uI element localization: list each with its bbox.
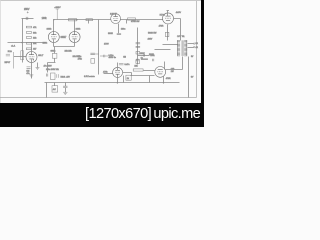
capacitor on branch xyxy=(143,54,145,57)
tube V5 plate bar xyxy=(115,69,120,71)
wire V6 cathode down xyxy=(163,77,165,83)
tube V2 splitter triode xyxy=(48,32,59,43)
svg-text:RCA: RCA xyxy=(8,50,13,53)
wire V3 plate up xyxy=(74,20,76,35)
svg-text:ch-A: ch-A xyxy=(11,44,16,47)
wire V7 plate to OPT xyxy=(174,19,181,41)
tube V6 cathode xyxy=(158,73,162,75)
node rail junction v6 xyxy=(163,82,164,83)
svg-text:47u: 47u xyxy=(26,73,29,75)
svg-text:100k: 100k xyxy=(76,28,82,30)
component box below rail xyxy=(52,86,58,92)
capacitor below rail xyxy=(63,86,67,87)
speaker terminal upper xyxy=(193,43,195,45)
svg-text:12BH7: 12BH7 xyxy=(110,13,117,15)
speaker terminal lower xyxy=(193,46,195,48)
ground symbol below rail xyxy=(63,92,67,94)
tube V1 plate bar xyxy=(29,54,34,56)
tube V4 grid dashes xyxy=(113,17,118,19)
transformer OPT secondary winding xyxy=(184,40,187,56)
tube V2 grid dashes xyxy=(51,36,57,38)
node junction on bus xyxy=(21,42,22,43)
svg-text:470R 5W: 470R 5W xyxy=(131,21,139,23)
resistor ladder row 5 xyxy=(26,48,31,50)
svg-text:22k: 22k xyxy=(33,37,37,39)
schematic scan xyxy=(0,0,204,127)
svg-text:6SL7: 6SL7 xyxy=(38,55,44,57)
component box bias xyxy=(51,73,56,80)
svg-text:470R: 470R xyxy=(159,25,164,27)
svg-text:100k: 100k xyxy=(42,18,48,20)
wire into transformer primary xyxy=(163,44,178,46)
capacitor chain mid xyxy=(136,46,141,47)
tube V3 cathode xyxy=(73,38,77,40)
svg-text:100u 100V 10k: 100u 100V 10k xyxy=(46,69,59,71)
wire V5 plate right xyxy=(123,73,132,76)
wire rail to output tube xyxy=(121,19,163,21)
resistor ladder row 1 xyxy=(26,26,31,28)
svg-text:390R: 390R xyxy=(108,33,113,35)
wire V1 cathode down xyxy=(31,60,33,79)
wire cathode bottom stub xyxy=(48,63,56,73)
resistor ladder row 3 xyxy=(26,37,31,39)
wire mid vertical to rail xyxy=(149,76,151,83)
svg-text:1k: 1k xyxy=(127,78,129,80)
node rail mid xyxy=(76,19,77,20)
tube V2 plate bar xyxy=(51,34,56,36)
wire resistor to V6 xyxy=(144,70,155,72)
svg-text:300V: 300V xyxy=(149,54,154,56)
svg-text:22k: 22k xyxy=(134,66,137,68)
svg-text:KT88: KT88 xyxy=(160,15,166,17)
wire feedback segment xyxy=(155,49,171,51)
tube V3 plate bar xyxy=(72,34,77,36)
wire ground rail xyxy=(45,82,180,84)
label row before V6 xyxy=(141,58,148,60)
wire V2 cathode down xyxy=(53,40,55,47)
capacitor above V5 xyxy=(119,64,124,65)
capacitor left of coupling wire xyxy=(90,53,98,55)
capacitor C_in marks xyxy=(26,17,28,20)
svg-text:100k: 100k xyxy=(47,28,53,30)
scan top edge xyxy=(0,0,201,2)
resistor chain mid xyxy=(136,52,140,55)
tube V4 cathode xyxy=(114,19,118,21)
svg-text:100u: 100u xyxy=(121,29,125,31)
tube V2 cathode xyxy=(52,38,56,40)
tube V5 lower driver xyxy=(113,67,123,77)
svg-text:47u 450V: 47u 450V xyxy=(44,66,53,68)
wire into V5 grid xyxy=(104,73,113,75)
svg-text:OPT 5k: OPT 5k xyxy=(177,36,185,38)
wire top-left horizontal xyxy=(22,18,34,20)
component box on rail center xyxy=(126,75,131,80)
tube V1 grid dashes xyxy=(29,56,35,58)
wire secondary out lower xyxy=(188,47,194,49)
resistor R_grid vertical xyxy=(21,51,24,60)
svg-text:10k: 10k xyxy=(33,43,37,45)
capacitor cathode bypass xyxy=(27,67,31,68)
svg-text:47k: 47k xyxy=(33,27,37,29)
wire drop to rail center xyxy=(123,76,125,83)
ground symbol input xyxy=(36,68,40,70)
svg-text:0V: 0V xyxy=(191,77,194,79)
svg-text:470k: 470k xyxy=(78,58,82,60)
wire lower coupling xyxy=(131,75,155,77)
wire junction drop xyxy=(126,20,128,24)
svg-text:1W: 1W xyxy=(171,71,174,73)
node rail left xyxy=(53,19,54,20)
wire horizontal upper-left bus xyxy=(8,42,47,44)
transformer OPT primary winding xyxy=(177,40,180,56)
black right strip xyxy=(201,0,204,127)
wire long vertical grid feed xyxy=(22,19,24,63)
wire cap to ground xyxy=(65,88,67,93)
tube V7 output upper xyxy=(163,13,174,24)
marks right of bias box xyxy=(57,74,59,78)
resistor ladder row 2 xyxy=(26,32,31,34)
capacitor coupling right xyxy=(100,55,108,57)
wire branch right xyxy=(138,55,150,57)
svg-text:0.47u: 0.47u xyxy=(125,64,130,66)
svg-text:INPUT: INPUT xyxy=(5,62,12,64)
svg-text:1M: 1M xyxy=(123,56,126,58)
svg-text:680R: 680R xyxy=(51,50,56,52)
svg-text:440V: 440V xyxy=(176,12,182,14)
tube V6 output lower xyxy=(155,67,166,78)
wire V4 plate top stub xyxy=(115,14,117,17)
wire V6 plate right xyxy=(166,57,183,70)
tube V7 grid dashes xyxy=(165,17,171,19)
svg-text:430V: 430V xyxy=(148,38,153,40)
svg-text:4k7: 4k7 xyxy=(33,49,37,51)
wire bias drop to border xyxy=(46,83,48,98)
wire secondary ground drop xyxy=(188,57,190,98)
wire stub below rail1 xyxy=(88,20,90,24)
tube V5 cathode xyxy=(116,73,120,75)
capacitor bias cluster xyxy=(46,74,47,77)
wire long vertical coupling xyxy=(98,20,100,75)
svg-text:8R: 8R xyxy=(196,43,199,45)
wire V7 top stub xyxy=(167,11,170,17)
wire V5 top xyxy=(117,63,119,71)
wire V5 cathode down xyxy=(117,75,119,83)
watermark text xyxy=(85,106,200,122)
capacitor chain upper xyxy=(136,42,141,43)
resistor on rail 1 xyxy=(69,19,77,21)
input jack J1 xyxy=(6,52,14,69)
wire to cathode resistor xyxy=(54,47,56,63)
resistor lower coupling xyxy=(133,69,143,71)
resistor V7 cathode xyxy=(165,32,169,36)
svg-text:400V dc: 400V dc xyxy=(109,57,116,59)
tube V7 cathode xyxy=(166,19,170,21)
svg-text:AC: AC xyxy=(53,88,56,91)
wire rail to cap below xyxy=(65,83,67,87)
svg-text:470R: 470R xyxy=(166,78,171,80)
svg-text:22k 22k: 22k 22k xyxy=(65,50,72,52)
svg-text:6.3V heaters: 6.3V heaters xyxy=(84,75,95,78)
wire V1 plate up xyxy=(31,43,33,55)
svg-text:250V: 250V xyxy=(24,9,30,11)
wire V4 cathode down xyxy=(118,24,120,34)
schematic border right xyxy=(196,1,198,98)
wire V3 cathode down xyxy=(74,40,76,47)
wire stub to ground xyxy=(37,63,39,68)
svg-text:33k: 33k xyxy=(33,32,37,34)
wire V7 cathode down xyxy=(167,25,169,41)
tube V1 input triode xyxy=(26,52,37,63)
tube V5 grid dashes xyxy=(115,71,120,73)
node rail junction v5 xyxy=(117,82,118,83)
svg-text:0V: 0V xyxy=(191,56,194,58)
svg-text:+380V: +380V xyxy=(54,7,61,9)
tube V3 splitter triode xyxy=(69,32,80,43)
svg-text:560R 5W: 560R 5W xyxy=(148,32,156,34)
svg-text:470k: 470k xyxy=(103,72,107,74)
tick marks row before V6 xyxy=(152,59,154,61)
ground symbol V1 cathode xyxy=(29,75,33,77)
svg-text:270V: 270V xyxy=(104,44,109,46)
svg-text:BIAS -42V: BIAS -42V xyxy=(61,75,71,78)
resistor ladder row 4 xyxy=(26,42,31,44)
wire rail to box xyxy=(54,83,56,86)
tube V6 plate bar xyxy=(158,69,163,71)
tube V6 grid dashes xyxy=(157,71,163,73)
wire jack to tube grid xyxy=(14,56,27,58)
resistor below cap xyxy=(91,59,95,64)
wire center vertical chain xyxy=(137,28,139,65)
resistor R_k common xyxy=(52,53,57,58)
wire secondary out upper xyxy=(188,43,194,45)
capacitor row before V6 xyxy=(137,59,139,61)
wire B+ rail upper xyxy=(54,19,111,21)
wire V2 plate up xyxy=(53,20,55,35)
transformer OPT core xyxy=(182,40,183,56)
polarity plus mark xyxy=(27,11,29,13)
resistor chain lower xyxy=(136,60,140,64)
tube V4 driver xyxy=(111,14,121,24)
B+ terminal stub xyxy=(56,9,59,20)
wire V6 grid top xyxy=(164,62,166,70)
tube V3 grid dashes xyxy=(72,36,78,38)
tube V7 plate bar xyxy=(166,15,171,17)
scan left edge xyxy=(0,0,1,103)
tube V4 plate bar xyxy=(113,16,117,18)
svg-text:6SN7: 6SN7 xyxy=(61,37,67,39)
svg-text:250V: 250V xyxy=(140,53,145,55)
resistor on rail2 xyxy=(128,18,136,20)
black bottom bar xyxy=(0,103,204,127)
schematic border bottom xyxy=(0,97,197,99)
tube V1 cathode xyxy=(29,59,33,61)
wire cathode join xyxy=(54,46,75,48)
svg-text:4R: 4R xyxy=(196,47,199,49)
resistor on rail 2 xyxy=(86,19,93,21)
capacitor V4 cathode xyxy=(117,33,121,34)
